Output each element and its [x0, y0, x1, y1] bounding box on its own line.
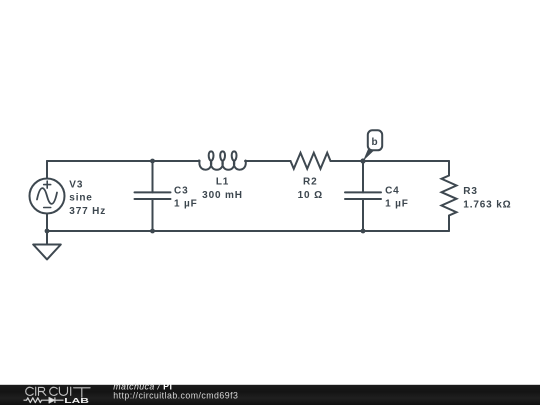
svg-text:V3: V3 — [69, 179, 83, 190]
svg-text:LAB: LAB — [64, 396, 89, 405]
svg-text:R3: R3 — [463, 186, 477, 197]
junction dot C4 bottom — [361, 229, 366, 234]
svg-text:377 Hz: 377 Hz — [69, 206, 106, 217]
svg-text:R2: R2 — [303, 177, 317, 188]
wire top rail right (R2 to node b to R3 corner) — [331, 160, 450, 162]
junction dot C3 top — [150, 159, 155, 164]
svg-text:http://circuitlab.com/cmd69f3: http://circuitlab.com/cmd69f3 — [113, 391, 238, 401]
footer bar — [0, 385, 540, 405]
svg-text:300 mH: 300 mH — [202, 190, 243, 201]
svg-text:L1: L1 — [216, 177, 229, 188]
svg-text:10 Ω: 10 Ω — [298, 190, 323, 201]
capacitor C3 — [135, 161, 171, 231]
resistor R3 — [442, 161, 457, 231]
junction dot C3 bottom — [150, 229, 155, 234]
capacitor C4 — [345, 161, 381, 231]
svg-text:1 µF: 1 µF — [385, 199, 409, 210]
svg-text:1.763 kΩ: 1.763 kΩ — [463, 199, 511, 210]
wire top rail left (V3 to L1) — [47, 160, 199, 162]
wire bottom rail — [47, 230, 449, 232]
svg-text:C3: C3 — [174, 185, 188, 196]
svg-text:b: b — [372, 137, 379, 148]
svg-text:C4: C4 — [385, 185, 399, 196]
resistor R2 — [291, 153, 331, 169]
svg-text:1 µF: 1 µF — [174, 199, 198, 210]
junction dot node b / C4 top — [360, 158, 365, 163]
CircuitLab logo: resistor-diode line — [24, 397, 64, 403]
voltage source V3 — [30, 161, 65, 231]
junction dot V3 bottom — [45, 229, 50, 234]
inductor L1 — [199, 151, 246, 169]
CircuitLab logo: CIRCUIT letters — [26, 387, 90, 397]
wire top rail middle (L1 to R2) — [245, 160, 291, 162]
ground — [33, 231, 61, 259]
node b callout balloon — [363, 130, 382, 161]
svg-text:sine: sine — [69, 193, 92, 204]
